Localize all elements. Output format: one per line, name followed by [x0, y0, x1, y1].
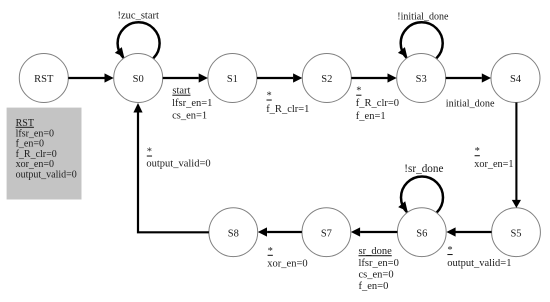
svg-text:xor_en=0: xor_en=0 [267, 259, 307, 270]
state S4 [491, 54, 540, 103]
state S3 [397, 54, 446, 103]
label * / f_R_clr=0 / f_en=1 (S2 to S3) [356, 86, 399, 122]
svg-text:*: * [447, 245, 452, 256]
svg-text:S0: S0 [133, 74, 144, 85]
label * / f_R_clr=1 (S1 to S2) [266, 91, 309, 115]
label initial_done (S3 to S4) [446, 98, 495, 109]
svg-text:S2: S2 [321, 74, 332, 85]
label * / output_valid=1 (S5 to S6) [447, 245, 511, 269]
state S7 [302, 208, 351, 257]
svg-text:f_en=1: f_en=1 [356, 111, 386, 122]
svg-text:S8: S8 [228, 229, 239, 240]
state S2 [302, 54, 351, 103]
transition S5 to S6 [446, 227, 491, 236]
svg-text:S7: S7 [321, 229, 332, 240]
svg-text:*: * [475, 146, 480, 157]
label !sr_done (S6 loop condition) [404, 163, 443, 175]
svg-text:S1: S1 [227, 74, 238, 85]
state RST [19, 54, 68, 103]
transition S0 to S1 [163, 73, 208, 82]
self-loop arc on S0 [118, 22, 160, 64]
arrowhead of S3 self-loop [398, 47, 407, 57]
svg-text:S4: S4 [510, 74, 522, 85]
label sr_done / lfsr_en=0 / cs_en=0 / f_en=0 (S6 to S7) [359, 246, 399, 292]
transition S7 to S8 [258, 227, 302, 236]
label start / lfsr_en=1 / cs_en=1 (S0 to S1) [172, 86, 212, 122]
svg-text:f_en=0: f_en=0 [359, 281, 389, 292]
svg-text:S5: S5 [510, 229, 521, 240]
state S1 [208, 54, 257, 103]
svg-text:S6: S6 [416, 229, 427, 240]
svg-text:output_valid=0: output_valid=0 [16, 170, 77, 181]
transition S6 to S7 [351, 227, 398, 236]
svg-text:sr_done: sr_done [359, 246, 393, 257]
state S5 [492, 208, 541, 257]
svg-text:S3: S3 [416, 74, 427, 85]
svg-text:lfsr_en=0: lfsr_en=0 [359, 258, 399, 269]
state S8 [209, 208, 258, 257]
svg-text:f_R_clr=0: f_R_clr=0 [356, 98, 399, 109]
label !initial_done (S3 loop condition) [397, 12, 449, 23]
svg-text:*: * [267, 91, 272, 102]
svg-text:start: start [172, 86, 190, 97]
svg-text:*: * [356, 86, 361, 97]
svg-text:RST: RST [16, 118, 34, 129]
transition RST to S0 [68, 73, 113, 82]
label * / output_valid=0 (S8 to S0) [146, 147, 210, 170]
svg-text:lfsr_en=1: lfsr_en=1 [172, 98, 212, 109]
svg-text:cs_en=1: cs_en=1 [172, 110, 207, 121]
svg-text:!sr_done: !sr_done [404, 163, 443, 175]
arrowhead of S6 self-loop [398, 201, 407, 211]
state S6 [397, 208, 446, 257]
transition S1 to S2 [257, 73, 302, 82]
transition S8 to S0 (elbow wire) [133, 103, 209, 232]
svg-text:xor_en=1: xor_en=1 [474, 159, 513, 170]
self-loop arc on S3 [401, 22, 443, 64]
svg-text:cs_en=0: cs_en=0 [359, 270, 394, 281]
svg-text:*: * [147, 147, 152, 158]
transition S3 to S4 [446, 73, 491, 82]
arrowhead of S0 self-loop [115, 47, 124, 57]
label * / xor_en=0 (S7 to S8) [267, 246, 307, 270]
svg-text:initial_done: initial_done [446, 98, 495, 109]
state S0 [114, 54, 163, 103]
svg-text:f_R_clr=1: f_R_clr=1 [266, 104, 309, 115]
svg-text:output_valid=0: output_valid=0 [146, 159, 210, 170]
legend box for RST outputs [7, 108, 82, 200]
transition S4 to S5 (vertical) [512, 103, 521, 208]
transition S2 to S3 [351, 73, 396, 82]
svg-text:*: * [268, 246, 273, 257]
svg-text:!zuc_start: !zuc_start [118, 10, 159, 21]
self-loop arc on S6 [401, 177, 443, 219]
label * / xor_en=1 (S4 to S5) [474, 146, 513, 170]
svg-text:output_valid=1: output_valid=1 [447, 258, 511, 269]
svg-text:!initial_done: !initial_done [397, 12, 449, 23]
label !zuc_start (S0 loop condition) [118, 10, 159, 21]
svg-text:RST: RST [34, 74, 54, 85]
